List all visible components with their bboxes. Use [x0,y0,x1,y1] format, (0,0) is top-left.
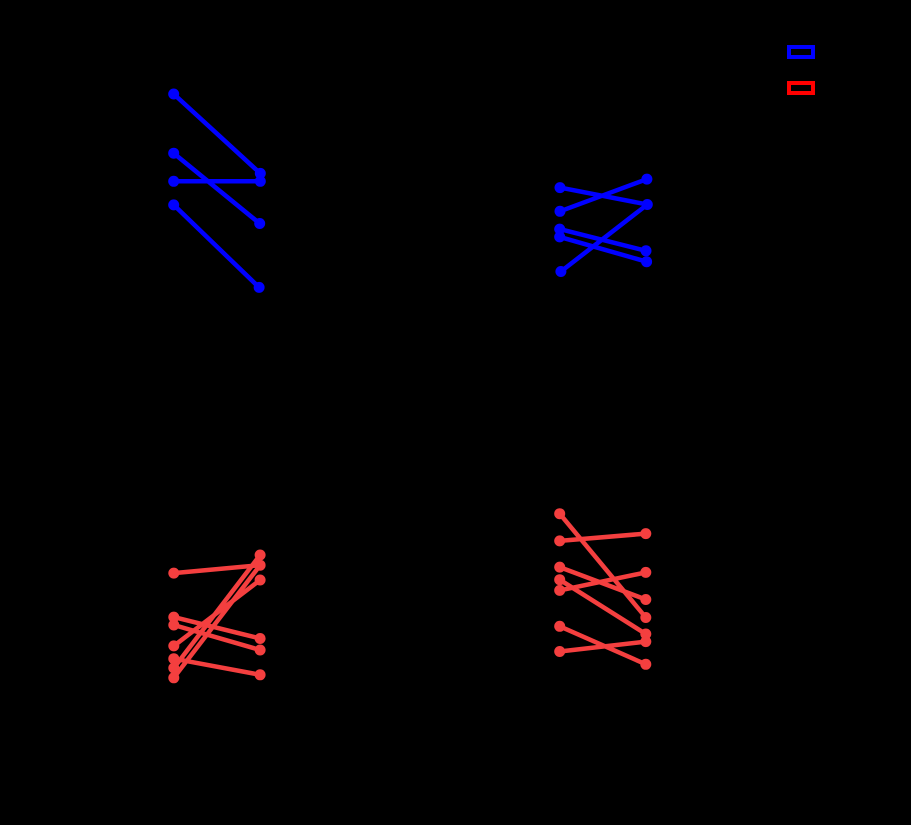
wire pair line P4-1 [560,514,646,618]
wire pair line P4-2 [560,534,646,541]
panel 3 dots [168,550,265,684]
legend key box blue [789,47,813,57]
panel 1 dots [168,89,266,293]
wire pair line P2-3 [560,229,646,251]
wire pair line P2-1 [560,188,647,205]
wire pair line P1-2 [174,153,260,223]
wire pair line P3-1 [174,565,260,573]
wire pair line P3-5 [174,659,260,675]
wire pair line P1-4 [174,205,259,288]
panel 3 (bottom-left, red) lines [174,555,260,678]
wire pair line P2-4 [560,237,647,262]
wire pair line P3-7 [174,565,260,678]
wire pair line P3-6 [174,555,260,668]
legend key box red [789,83,813,93]
wire pair line P4-3 [560,567,646,599]
panel 1 (top-left, blue) lines [174,94,261,287]
panel 4 dots [554,508,651,670]
wire pair line P1-1 [174,94,261,173]
wire pair line P1-3 [174,179,261,184]
wire pair line P3-4 [174,580,260,646]
panel 2 (top-right, blue) lines [560,179,648,271]
wire pair line P4-7 [560,642,646,652]
wire pair line P3-3 [174,625,260,650]
panel 2 dots [554,174,653,277]
wire pair line P2-5 [561,205,647,272]
wire pair line P2-2 [560,179,647,211]
wire pair line P3-2 [174,617,260,638]
wire pair line P4-5 [560,572,646,590]
wire pair line P4-4 [560,580,646,634]
wire pair line P4-6 [560,626,646,664]
panel 4 (bottom-right, red) lines [560,514,646,665]
